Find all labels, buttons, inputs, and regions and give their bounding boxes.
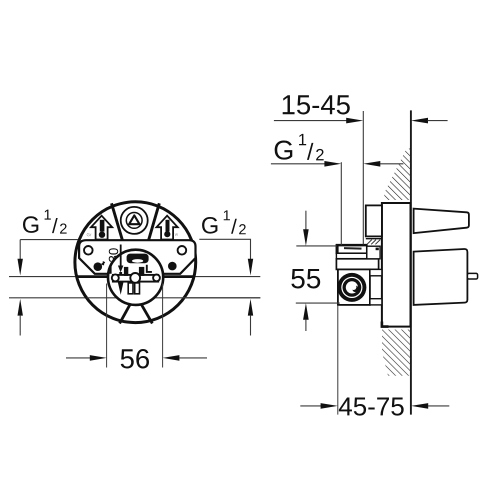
step bottom-right [370,299,382,305]
dim 56 right arrow [163,355,180,361]
union nut band 2 [336,253,366,258]
arrow up right bar [166,220,170,232]
bar end circle left [112,274,119,281]
nut band1 left cap [336,245,338,252]
mounting plate (octagon with rounded top corners) [79,240,195,274]
center circle [130,273,140,283]
thread marks under sleeve [367,240,380,245]
bar end circle right [153,275,160,282]
port ring crescent [352,286,358,292]
black block right of center [139,267,144,276]
outer circle of valve body [75,202,196,323]
mounting plate (section) [382,203,411,327]
needle upper wedge [118,266,124,273]
logo triangle [129,215,139,224]
ext line nut front [340,162,342,245]
dim 45-75 left arrow [300,405,321,407]
wall hatch top [384,149,411,201]
screw dot left [94,262,103,271]
outlet ribs below center (right) [135,283,140,294]
mirrored L mark [107,266,110,273]
leader left down arrowhead [18,259,23,276]
arrow up right (outline) [157,216,178,240]
plate hole right [178,246,187,255]
connector dark mark [376,248,379,251]
union nut band 1 [336,245,366,253]
nut band1 thick top edge [336,244,367,247]
dim 45-75 right arrow [411,403,428,409]
label 30 (rotated) [109,248,118,262]
small stub right [467,273,477,279]
leader left up arrowhead [18,299,23,316]
outlet ribs below center (left) [128,283,133,294]
dim 15-45 right part [411,118,428,124]
leader right down arrowhead [248,259,253,276]
plate bottom dark corner [382,322,389,327]
dim 55 top line [296,245,336,247]
dim G1/2 left arrow [271,163,325,165]
flush mouth (dark shape at hub top) [127,254,149,264]
pipe axis line upper [9,276,260,278]
plate hole left [84,246,93,255]
LEFT VIEW DIMENSIONS [18,210,254,369]
screw dot right [168,262,177,271]
ext line 45-75 left [337,305,339,415]
thick spoke right [162,275,195,278]
trapezoid body top (behind wall) [414,209,469,234]
dim 55 bottom line [296,302,340,304]
flush mouth white slit [132,259,143,263]
spoke bottom-right [141,304,152,323]
pipe line lower inside circle [87,297,261,299]
spoke top-left [112,203,123,241]
dim 55 up arrow [303,303,309,320]
label 55 [291,269,320,289]
arrow up right ball [164,231,170,237]
leader right G1/2 [199,239,250,259]
label 15-45 [283,95,350,114]
tiny label left of arrow [87,233,92,236]
logo inner circle [126,213,142,229]
label 56 [121,349,149,368]
spoke top-right [148,203,159,241]
dim 55 down arrow [305,211,307,230]
pipe line upper inside circle (thick spoke left) [76,275,109,278]
main body (behind wall) [414,249,468,305]
arrow up left ball [99,232,105,238]
label G 1/2 right [202,210,246,234]
spoke bottom-left [120,304,131,323]
ext line front face [362,111,364,245]
tick near left screw [102,261,105,265]
hub circle (cartridge housing) [108,250,163,305]
logo outer circle [121,207,148,234]
leader left up stem [19,316,21,336]
black block left of center [124,267,128,276]
ext line 56 left [106,284,108,368]
LEFT VIEW (front view of concealed valve body) [9,202,260,324]
dim G1/2 right arrow [363,161,380,167]
leader right up stem [250,316,252,336]
label G 1/2 left [23,210,67,234]
needle upper line [120,245,122,266]
needle lower wedge [118,283,124,295]
leader right up arrowhead [248,299,253,316]
ext line 56 right [162,284,164,368]
arrow up left bar [100,220,105,232]
label 45-75 [339,398,404,416]
wall face line [410,110,412,414]
L mark [147,265,152,272]
port block [338,269,370,305]
RIGHT VIEW (side section) [336,110,478,414]
port ring outer [337,273,366,302]
cross bar [113,275,158,282]
front sleeve stub [366,205,382,236]
leader left G1/2 [20,240,78,259]
arrow up left (outline) [91,216,112,240]
lip under sleeve [366,238,382,240]
dim 56 left arrow [66,357,90,359]
nut band1 dark streak [344,247,362,250]
tiny label right of arrow [175,233,178,235]
needle mid [119,272,122,283]
pipe axis line lower [9,297,260,299]
label G 1/2 top [275,134,324,161]
dim 15-45 left part [274,120,347,122]
union nut band 3 [336,259,378,270]
step top-right [370,269,382,275]
wall hatch bottom [382,330,411,376]
connector block right of nut [367,246,380,259]
RIGHT VIEW DIMENSIONS [271,95,449,415]
